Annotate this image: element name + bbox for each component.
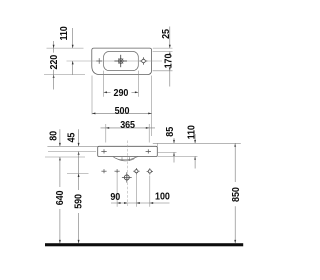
faucet hole plan (140, 57, 148, 65)
body right edge tick up to deck line (156, 143, 158, 146)
dimension 640 left (54, 157, 66, 243)
dimension 80 front (48, 129, 61, 146)
fixing hole cross 1 (101, 169, 106, 173)
dimension 170 plan (163, 52, 175, 87)
dimension 110 front (186, 125, 198, 168)
svg-text:80: 80 (48, 131, 60, 141)
extension line body bottom right (158, 155, 198, 157)
dimension 85 front (165, 126, 177, 162)
drain fitting ticks on curve (121, 157, 123, 161)
extension line basin bottom left (44, 74, 85, 76)
centerline of hole row right segment (146, 60, 163, 62)
left tap hole cross plan (96, 58, 102, 64)
extension line basin top left (47, 47, 84, 49)
svg-text:90: 90 (110, 191, 120, 203)
dimension 500 plan (92, 76, 152, 137)
centerline of hole row y=61 (67, 60, 142, 62)
vertical centerline front view (127, 141, 129, 207)
svg-text:110: 110 (186, 125, 198, 139)
extension line face cross row right (158, 151, 177, 153)
extension vertical from fixing hole 3 (135, 174, 137, 207)
svg-text:45: 45 (66, 132, 78, 143)
dimension 365 front (101, 120, 156, 143)
extension line bowl top right (153, 51, 173, 53)
svg-text:640: 640 (54, 191, 66, 206)
extension line body top left (47, 145, 97, 147)
svg-text:170: 170 (163, 54, 175, 69)
extension line deck top right (153, 142, 241, 144)
dimension 90 and 100 bottom row (110, 191, 169, 204)
dimension 590 left (73, 152, 85, 244)
drain outlet circle front view (122, 172, 132, 182)
dimension 290 plan (104, 71, 139, 99)
dimension 110 plan (59, 26, 74, 74)
extension line bowl bottom right (153, 70, 173, 72)
extension line face hole row left (48, 151, 96, 153)
drain symbol plan (114, 55, 127, 67)
svg-text:850: 850 (230, 187, 242, 202)
bowl underside inner curve front view (116, 158, 135, 161)
svg-text:220: 220 (48, 55, 60, 70)
extension line basin top right (153, 47, 173, 49)
extension line body bottom left (45, 156, 85, 158)
svg-text:500: 500 (115, 106, 130, 118)
bowl underside curve front view (113, 157, 138, 160)
basin outline plan view (92, 48, 152, 75)
dimension 45 front (66, 129, 79, 155)
dimension 25 plan (161, 27, 173, 49)
floor line (45, 243, 243, 246)
extension vertical from fixing hole 2 (116, 174, 118, 207)
svg-text:100: 100 (155, 191, 170, 203)
svg-text:110: 110 (59, 26, 71, 40)
faucet axis circle front view (147, 168, 153, 174)
dimension 220 plan (48, 41, 60, 90)
fixing hole cross 2 (115, 169, 120, 173)
svg-text:25: 25 (161, 28, 173, 39)
svg-text:590: 590 (73, 194, 85, 209)
face cross right front view (146, 149, 151, 153)
drain fitting tick right (128, 157, 130, 161)
dimension 850 right (230, 143, 242, 243)
svg-text:85: 85 (165, 126, 177, 137)
inner bowl plan view (104, 52, 139, 71)
svg-text:290: 290 (114, 87, 129, 99)
basin body front view (98, 146, 158, 156)
svg-text:365: 365 (120, 120, 135, 132)
extension vertical from faucet axis (149, 176, 151, 207)
face cross left front view (101, 149, 106, 153)
extension line fixing row left (67, 173, 89, 175)
fixing hole circle 3 (133, 168, 139, 174)
